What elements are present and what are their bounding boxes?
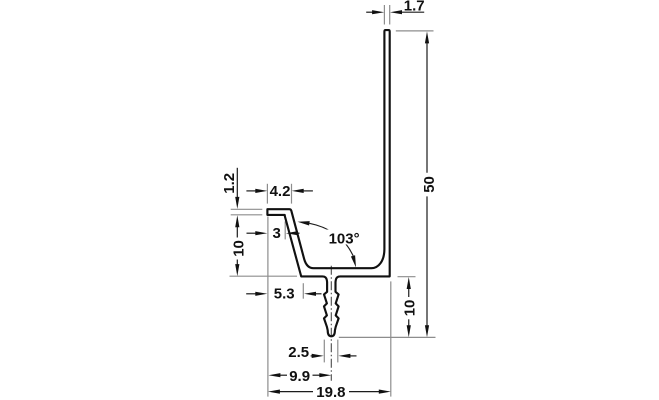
arrow 4.2 right (points left) <box>292 189 304 193</box>
arc arrow at slant (points left) <box>298 221 310 225</box>
dim 5.3 right tail <box>315 293 322 295</box>
centerline of spigot (dash-dot) <box>330 266 332 381</box>
dim 3 left tail <box>247 232 257 234</box>
dim 19.8 line right <box>349 391 380 393</box>
ext line lip left edge extended down (3 / 5.3 / 9.9 / 19.8 dims) <box>267 217 269 397</box>
arrow 1.2 upper (points down) <box>235 197 239 209</box>
svg-text:10: 10 <box>401 300 418 317</box>
ext tick barb left (2.5 dim) <box>323 340 325 363</box>
dimension lines (dark) <box>237 12 427 391</box>
ext tick slant left face (3 dim) <box>284 221 286 239</box>
arrow 5.3 right (points left) <box>304 292 316 296</box>
dim 9.9 line left <box>279 374 287 376</box>
ext line outer-right edge extended down (19.8 dim) <box>390 281 392 396</box>
profile outline <box>267 30 389 336</box>
svg-text:3: 3 <box>273 225 281 242</box>
arrowheads <box>235 10 429 394</box>
arrow 50 bottom (points down) <box>425 325 429 337</box>
arrow 10 left bottom (points down) <box>235 264 239 276</box>
dim 19.8 line left <box>279 391 313 393</box>
dim 1.2 upper arrow tail <box>236 168 238 198</box>
arrow 2.5 right (points left) <box>338 354 350 358</box>
dim 2.5 right tail <box>349 355 356 357</box>
arrow 3 left (points right) <box>255 231 267 235</box>
ext line wall-left extended up (1.7 dim) <box>383 5 385 25</box>
dim 4.2 left tail <box>246 190 256 192</box>
dim 50 line lower <box>426 196 428 326</box>
svg-text:10: 10 <box>231 240 248 257</box>
arrow 10 left top (points up) <box>235 215 239 227</box>
arrow 1.7 left (points right) <box>372 10 384 14</box>
ext line lip top to left (1.2 dim) <box>231 208 263 210</box>
angle arc arrowheads <box>298 221 357 267</box>
ext line wall-right extended up (1.7 dim) <box>389 5 391 25</box>
dim 1.7 left tail <box>366 11 373 13</box>
svg-text:5.3: 5.3 <box>274 286 295 303</box>
arrow 9.9 right (points right) <box>319 373 331 377</box>
angle leader arc 103deg <box>309 223 353 256</box>
arrow 4.2 left (points right) <box>255 189 267 193</box>
arc arrow at bottom (points down) <box>351 255 356 267</box>
dim 2.5 left tail <box>311 355 314 357</box>
arrow 9.9 left (points left) <box>268 373 280 377</box>
arrow 19.8 right (points right) <box>379 390 391 394</box>
dim 9.9 line right <box>313 374 321 376</box>
svg-text:2.5: 2.5 <box>288 344 309 361</box>
extension lines (gray) <box>230 5 436 397</box>
svg-text:19.8: 19.8 <box>316 384 345 400</box>
ext tick outer bottom-left corner (5.3 dim) <box>302 283 304 299</box>
svg-text:1.7: 1.7 <box>404 0 425 14</box>
dim 50 line upper <box>426 42 428 173</box>
ext tick barb right (2.5 dim) <box>337 340 339 363</box>
arrow 19.8 left (points left) <box>268 390 280 394</box>
dimension texts <box>221 0 438 400</box>
dim 5.3 left tail <box>246 293 256 295</box>
dim 10 right line upper <box>408 288 410 298</box>
arrow 1.7 right (points left) <box>390 10 402 14</box>
arrow 5.3 left (points right) <box>255 292 267 296</box>
svg-text:103°: 103° <box>329 231 360 248</box>
arrow 10 right bottom (points down) <box>407 325 411 337</box>
svg-text:1.2: 1.2 <box>221 173 238 194</box>
arrow 2.5 left (points right) <box>312 354 324 358</box>
svg-text:50: 50 <box>421 176 438 193</box>
ext line lip bottom to left (1.2 dim) <box>231 214 263 216</box>
dim 10 right line lower <box>408 319 410 326</box>
arrow 3 right (points left) <box>286 231 298 235</box>
white mask under 103 text <box>327 230 358 245</box>
dim 3 right tail <box>297 232 300 234</box>
arrow 50 top (points up) <box>425 31 429 43</box>
ext line lip left edge (4.2 dim, upper) <box>266 184 268 204</box>
ext line slant bend (4.2 dim, upper right) <box>291 184 293 204</box>
ext line top of wall to right (50 dim) <box>396 30 434 32</box>
dim 4.2 right tail <box>303 190 313 192</box>
svg-text:9.9: 9.9 <box>289 368 310 385</box>
ext line outer bottom to left (10 dim) <box>230 275 298 277</box>
dim 1.7 right tail <box>402 11 425 13</box>
dim 10 left line <box>236 227 238 238</box>
ext line spigot tip to right (50/10 dims bottom ref) <box>339 336 436 338</box>
ext line bottom-right corner to right (10 dim) <box>398 276 416 278</box>
arrow 10 right top (points up) <box>407 277 411 289</box>
svg-text:4.2: 4.2 <box>270 183 291 200</box>
